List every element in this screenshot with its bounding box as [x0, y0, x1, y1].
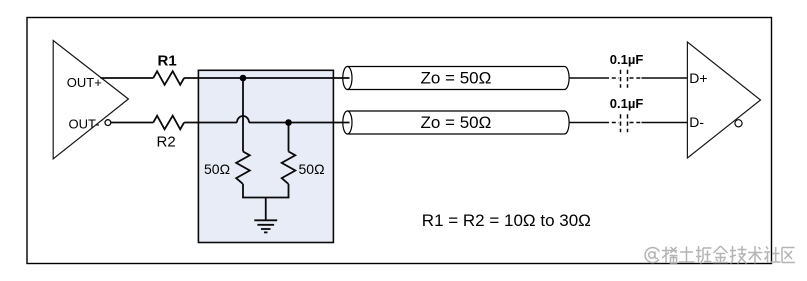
术 — [754, 246, 756, 264]
svg-text:R1: R1 — [158, 53, 177, 70]
watermark @稀土掘金技术社区 — [645, 246, 795, 264]
svg-text:D-: D- — [689, 114, 704, 130]
resistor R1 — [153, 71, 184, 85]
社 — [766, 247, 768, 250]
wire R2 to hop — [184, 122, 237, 124]
wire T1 to capacitor C1 — [569, 77, 605, 79]
稀 — [662, 250, 677, 252]
capacitor C2 0.1uF (dashed, optional) — [605, 114, 642, 132]
svg-text:50Ω: 50Ω — [204, 161, 230, 177]
ground — [254, 220, 277, 232]
svg-text:50Ω: 50Ω — [299, 161, 325, 177]
inverting output bubble on driver — [105, 120, 111, 126]
svg-text:OUT+: OUT+ — [67, 75, 102, 90]
wire capacitor C1 to receiver D+ — [642, 77, 688, 79]
wire vertical branch 2 — [288, 123, 290, 152]
@ — [645, 248, 659, 263]
wire hop to transmission line T2 — [249, 122, 350, 124]
wire T2 to capacitor C2 — [569, 122, 605, 124]
receiver amplifier — [687, 42, 760, 158]
resistor R2 — [153, 116, 184, 130]
node junction on top rail — [240, 75, 247, 82]
技 — [732, 246, 734, 261]
resistor 50Ω left — [236, 152, 250, 185]
svg-text:0.1µF: 0.1µF — [610, 96, 644, 111]
svg-text:OUT-: OUT- — [69, 117, 100, 132]
掘 — [698, 246, 700, 262]
transmission line T1 Zo=50 top — [343, 67, 569, 90]
capacitor C1 0.1uF (dashed, optional) — [605, 70, 642, 88]
resistor 50Ω right — [282, 152, 296, 185]
svg-text:R2: R2 — [157, 133, 176, 150]
土 — [680, 251, 693, 253]
wire resistor bottoms to common node — [242, 184, 244, 198]
svg-text:0.1µF: 0.1µF — [610, 52, 644, 67]
svg-text:Zo = 50Ω: Zo = 50Ω — [421, 113, 492, 132]
svg-text:Zo = 50Ω: Zo = 50Ω — [421, 69, 492, 88]
wire stub to ground — [265, 198, 267, 221]
bubble on receiver hypotenuse — [735, 120, 742, 127]
driver amplifier — [53, 41, 128, 159]
wire OUT- to R2 — [111, 122, 154, 124]
金 — [714, 246, 721, 253]
node junction on bottom rail — [285, 119, 292, 126]
wire capacitor C2 to receiver D- — [642, 122, 688, 124]
wire vertical branch 1 — [242, 78, 244, 152]
wire hop over vertical branch — [237, 116, 249, 122]
区 — [782, 247, 795, 249]
svg-text:R1 = R2 = 10Ω to 30Ω: R1 = R2 = 10Ω to 30Ω — [422, 211, 591, 230]
svg-text:D+: D+ — [689, 70, 707, 86]
wire R1 to transmission line T1 — [184, 77, 349, 79]
termination network box — [198, 70, 333, 242]
wire OUT+ to R1 — [101, 77, 154, 79]
transmission line T2 Zo=50 bottom — [343, 111, 569, 134]
